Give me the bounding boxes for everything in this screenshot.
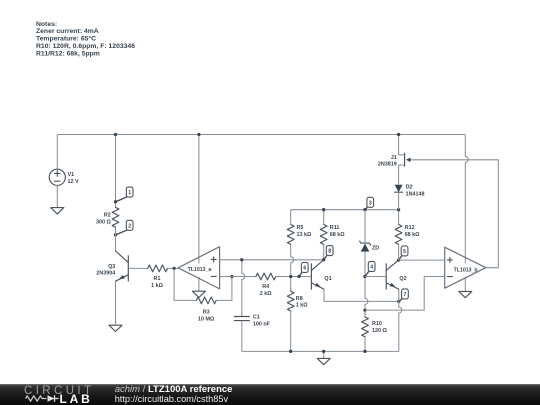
svg-text:R1: R1: [154, 276, 161, 282]
svg-text:2N3904: 2N3904: [96, 271, 115, 277]
node 1: [114, 187, 133, 203]
capacitor C1: [234, 315, 270, 328]
svg-text:Q3: Q3: [108, 264, 115, 270]
resistor R1: [148, 265, 168, 289]
resistor R11: [320, 208, 345, 244]
svg-text:V1: V1: [68, 172, 75, 178]
wire Q3 emitter down: [115, 281, 117, 325]
wire R8 bottom to rail: [289, 311, 292, 353]
node output junction: [172, 267, 175, 270]
wire bottom ground rail: [242, 350, 399, 352]
wire top supply rail: [57, 134, 465, 136]
svg-text:12 V: 12 V: [68, 179, 79, 185]
svg-text:D2: D2: [406, 185, 413, 191]
transistor Q1: [311, 260, 331, 290]
svg-text:LAB: LAB: [60, 392, 93, 405]
resistor R12: [395, 208, 420, 244]
node 8: [322, 246, 333, 262]
svg-text:2N3819: 2N3819: [378, 162, 397, 168]
wire inverting row: [220, 276, 256, 278]
zener diode ZD: [360, 241, 380, 251]
ground below op-amp U2: [459, 291, 472, 297]
wire C1 column with hop: [242, 260, 245, 317]
wire R10 row to op-amp B inverting input: [365, 277, 445, 311]
wire J1 drain from rail: [397, 133, 404, 155]
wire zener column top: [364, 210, 366, 243]
resistor R10: [362, 317, 388, 337]
svg-text:R3: R3: [203, 310, 210, 316]
svg-text:3: 3: [369, 200, 372, 206]
svg-text:http://circuitlab.com/csth85v: http://circuitlab.com/csth85v: [115, 394, 229, 404]
svg-text:J1: J1: [391, 155, 397, 161]
svg-text:TL1013_a: TL1013_a: [188, 267, 212, 273]
wire C1 bottom: [241, 321, 243, 352]
svg-text:10 MΩ: 10 MΩ: [198, 317, 215, 323]
svg-text:7: 7: [404, 292, 407, 298]
diode D2 (1N4148): [395, 185, 425, 198]
ground below Q3: [109, 325, 122, 331]
svg-text:100 nF: 100 nF: [253, 321, 271, 327]
svg-text:Notes:: Notes:: [36, 21, 57, 28]
wire J1 source to D2 anode: [399, 165, 404, 185]
ground main: [317, 350, 330, 365]
svg-text:C1: C1: [253, 315, 260, 321]
svg-text:Q2: Q2: [399, 276, 406, 282]
svg-text:R8: R8: [296, 296, 303, 302]
transistor Q3 (2N3904): [96, 251, 128, 281]
transistor Q2: [386, 260, 406, 289]
node 4: [363, 261, 375, 278]
wire R4 to Q1 base: [276, 276, 312, 278]
wire R11 bottom to node 8: [323, 244, 325, 259]
svg-text:1 kΩ: 1 kΩ: [151, 283, 163, 289]
wire feedback loop left and bottom: [174, 268, 196, 300]
svg-text:Temperature: 65°C: Temperature: 65°C: [36, 35, 96, 43]
svg-text:8: 8: [328, 249, 331, 255]
wire J1 gate to op-amp B output: [411, 160, 499, 268]
resistor R2: [96, 207, 119, 227]
svg-text:R11: R11: [330, 225, 340, 231]
wire R1 to op-amp output node: [168, 267, 179, 269]
svg-text:R10: 120R, 0.6ppm, F: 1203346: R10: 120R, 0.6ppm, F: 1203346: [36, 43, 135, 50]
wire Q2 collector to op-amp B noninverting: [399, 259, 445, 261]
node R8 top junction: [289, 275, 292, 278]
wire R5 to R8 column with hop: [291, 244, 294, 291]
svg-text:68 kΩ: 68 kΩ: [330, 232, 345, 238]
notes text block: [36, 21, 135, 58]
svg-text:R12: R12: [405, 225, 415, 231]
footer bar: [0, 384, 540, 405]
node 5: [397, 246, 408, 262]
wire R10 bottom to rail: [363, 337, 366, 353]
svg-text:R5: R5: [297, 225, 304, 231]
node 6: [297, 262, 308, 278]
resistor R5: [287, 210, 312, 245]
wire noninverting row: [220, 259, 324, 261]
svg-text:TL1013_b: TL1013_b: [454, 267, 478, 273]
svg-text:6: 6: [303, 266, 306, 272]
wire Q2 emitter column to rail with hop: [399, 289, 402, 351]
op-amp U2 TL1013_b: [445, 135, 486, 292]
svg-text:1 kΩ: 1 kΩ: [296, 303, 308, 309]
wire Q3 base to R1: [128, 267, 147, 269]
svg-text:R11/R12: 68k, 5ppm: R11/R12: 68k, 5ppm: [36, 51, 100, 58]
JFET J1 (2N3819): [378, 153, 411, 168]
svg-text:5: 5: [403, 249, 406, 255]
svg-text:2: 2: [128, 223, 131, 229]
node C1 top junction: [240, 258, 243, 261]
wire R2 bottom to Q3 collector: [115, 227, 117, 251]
svg-text:Zener current: 4mA: Zener current: 4mA: [36, 28, 99, 35]
wire R12 bottom to node 5: [398, 244, 400, 260]
svg-text:13 kΩ: 13 kΩ: [297, 232, 312, 238]
wire Q1 emitter down to emitter row: [324, 289, 399, 301]
svg-text:2 kΩ: 2 kΩ: [260, 291, 272, 297]
svg-text:68 kΩ: 68 kΩ: [405, 232, 420, 238]
svg-text:R2: R2: [104, 213, 111, 219]
svg-text:R4: R4: [262, 284, 269, 290]
resistor R8: [287, 291, 308, 311]
wire R2 column from rail: [114, 133, 117, 208]
wire D2 cathode to middle rail: [398, 192, 400, 209]
wire V1 bottom to ground: [56, 185, 58, 207]
node R10 top junction: [363, 308, 366, 311]
svg-text:4: 4: [370, 265, 373, 271]
svg-text:ZD: ZD: [372, 246, 379, 252]
svg-text:120 Ω: 120 Ω: [372, 328, 387, 334]
svg-text:R10: R10: [372, 321, 382, 327]
wire middle rail: [291, 209, 399, 211]
wire zener anode column with hop: [365, 251, 368, 317]
voltage source V1: [49, 169, 79, 185]
svg-text:1N4148: 1N4148: [406, 191, 425, 197]
wire V1 top to rail: [56, 135, 58, 170]
svg-text:1: 1: [128, 190, 131, 196]
wire R3 to inverting input: [216, 277, 232, 301]
op-amp U1 TL1013_a: [178, 133, 220, 291]
svg-text:Q1: Q1: [324, 276, 331, 282]
node 3: [363, 197, 373, 211]
node 7: [397, 289, 408, 303]
resistor R3: [196, 297, 216, 323]
resistor R4: [256, 273, 276, 297]
ground below V1: [51, 208, 64, 214]
svg-text:300 Ω: 300 Ω: [96, 220, 111, 226]
node feedback junction: [230, 275, 233, 278]
node 2: [114, 220, 133, 236]
ground below op-amp U1: [192, 291, 205, 297]
wire node4 to Q2 base: [365, 276, 386, 278]
